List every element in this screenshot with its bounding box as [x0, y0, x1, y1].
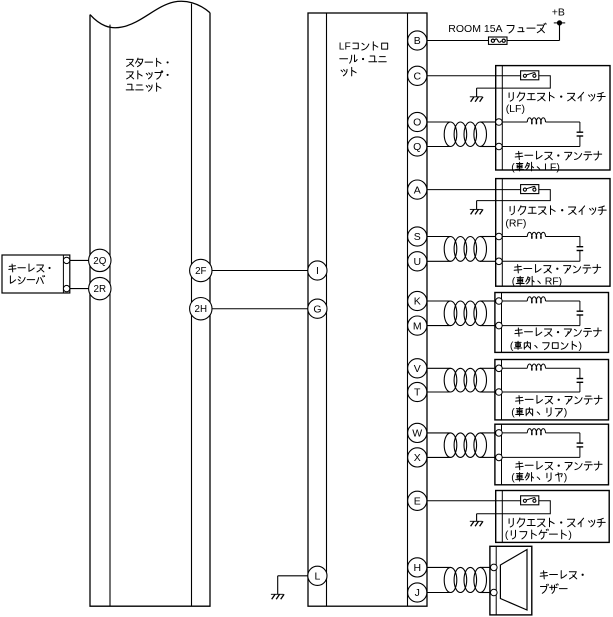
wire receiver to 2Q — [70, 259, 89, 261]
wire A to switch (RF) — [427, 189, 521, 191]
antenna coil LF — [502, 121, 527, 123]
antenna pin top (LF) — [496, 119, 503, 126]
antenna pin bottom (RF) — [496, 258, 503, 265]
svg-text:O: O — [413, 117, 421, 129]
svg-text:): ) — [564, 406, 568, 418]
ground (LF switch) — [476, 88, 478, 97]
twisted pair O-Q — [427, 121, 451, 123]
svg-text:2Q: 2Q — [93, 256, 106, 267]
keyless antenna (exterior LF) label — [511, 151, 601, 173]
svg-text:(: ( — [510, 340, 514, 352]
twisted pair H-J — [427, 566, 451, 568]
keyless buzzer box — [490, 546, 532, 615]
LF control unit — [308, 13, 427, 606]
antenna capacitor int-rear — [502, 368, 583, 392]
request switch (LF) label — [506, 92, 606, 115]
fuse ROOM 15A — [489, 37, 508, 44]
svg-text:H: H — [413, 562, 421, 574]
start-stop unit (box with torn wavy top) — [90, 1, 210, 606]
wire switch (liftgate) to ground — [477, 501, 551, 514]
terminal U — [408, 252, 427, 271]
svg-text:X: X — [414, 452, 421, 464]
terminal 2R — [89, 277, 111, 299]
antenna capacitor int-front — [502, 301, 583, 326]
terminal 2H — [190, 298, 212, 320]
ground (L) — [277, 593, 279, 595]
request switch (RF) — [521, 185, 539, 194]
keyless antenna (interior rear) box — [495, 360, 609, 420]
wire switch (RF) to ground — [477, 190, 551, 201]
terminal E — [408, 491, 427, 510]
request switch (liftgate) box — [496, 491, 610, 543]
wire B to fuse — [427, 40, 489, 42]
terminal H — [408, 558, 427, 577]
svg-text:T: T — [414, 387, 421, 399]
svg-text:): ) — [568, 529, 572, 541]
antenna coil int-rear — [502, 367, 527, 369]
svg-text:C: C — [413, 71, 421, 83]
antenna pin bottom (LF) — [496, 143, 503, 150]
antenna capacitor RF — [502, 237, 583, 262]
request switch (liftgate) — [521, 496, 539, 505]
receiver pin (top) — [63, 257, 69, 263]
ground (RF switch) — [476, 201, 478, 210]
wire receiver to 2R — [70, 288, 89, 290]
start-stop unit label — [126, 58, 168, 91]
antenna pin top (int-front) — [496, 298, 503, 305]
terminal 2F — [190, 259, 212, 281]
svg-text:(RF): (RF) — [505, 217, 526, 229]
wire E to switch (liftgate) — [427, 500, 521, 502]
twisted pair V-T — [427, 367, 451, 369]
terminal G — [308, 299, 327, 318]
svg-text:LF): LF) — [544, 161, 560, 173]
antenna pin top (int-rear) — [496, 365, 503, 372]
svg-text:(: ( — [511, 472, 515, 484]
svg-text:U: U — [413, 256, 421, 268]
+B supply — [552, 6, 565, 25]
svg-text:): ) — [579, 340, 583, 352]
antenna coil ext-rear — [502, 432, 527, 434]
wire L to ground — [278, 575, 308, 577]
terminal S — [408, 227, 427, 246]
request switch / antenna unit (RF) box — [496, 179, 610, 287]
svg-text:+B: +B — [552, 6, 565, 18]
terminal C — [408, 66, 427, 85]
svg-text:B: B — [414, 35, 421, 47]
svg-text:RF): RF) — [545, 275, 563, 287]
svg-text:A: A — [414, 184, 421, 196]
buzzer pin top — [491, 564, 498, 571]
twisted pair S-U — [427, 236, 451, 238]
wire fuse to +B — [507, 40, 560, 42]
antenna pin bottom (int-rear) — [496, 389, 503, 396]
terminal X — [408, 448, 427, 467]
LF control unit label — [339, 42, 388, 76]
ground (liftgate switch) — [476, 514, 478, 522]
antenna pin bottom (ext-rear) — [496, 454, 503, 461]
keyless receiver unit — [2, 255, 70, 293]
antenna pin top (RF) — [496, 233, 503, 240]
svg-text:V: V — [414, 363, 421, 375]
svg-text:M: M — [413, 320, 422, 332]
antenna capacitor ext-rear — [502, 433, 583, 458]
keyless antenna (interior rear) label — [511, 395, 602, 418]
twisted pair W-X — [427, 432, 451, 434]
terminal Q — [408, 137, 427, 156]
request switch (LF) — [521, 71, 539, 80]
wire C to switch (LF) — [427, 75, 521, 77]
svg-text:(: ( — [511, 406, 515, 418]
svg-text:W: W — [412, 428, 422, 440]
svg-text:E: E — [414, 496, 421, 508]
svg-text:I: I — [316, 265, 319, 277]
terminal J — [408, 583, 427, 602]
terminal O — [408, 112, 427, 131]
keyless receiver label — [9, 264, 51, 284]
terminal T — [408, 382, 427, 401]
antenna coil RF — [502, 236, 527, 238]
keyless antenna (exterior rear) label — [511, 461, 602, 483]
keyless antenna (exterior rear) box — [495, 424, 609, 485]
terminal V — [408, 359, 427, 378]
antenna pin bottom (int-front) — [496, 322, 503, 329]
svg-text:2H: 2H — [195, 304, 208, 315]
terminal 2Q — [89, 249, 111, 271]
svg-text:(: ( — [512, 275, 516, 287]
buzzer speaker cone — [500, 550, 527, 611]
svg-text:2R: 2R — [94, 284, 107, 295]
svg-text:K: K — [414, 296, 421, 308]
receiver pin (bottom) — [63, 285, 69, 291]
twisted pair K-M — [427, 300, 451, 302]
antenna coil int-front — [502, 300, 527, 302]
terminal B — [408, 31, 427, 50]
svg-text:LF: LF — [339, 42, 351, 53]
keyless buzzer label — [540, 571, 584, 594]
svg-text:Q: Q — [413, 141, 421, 153]
terminal I — [308, 261, 327, 280]
terminal M — [408, 316, 427, 335]
svg-text:): ) — [564, 472, 568, 484]
svg-text:L: L — [314, 571, 320, 583]
keyless antenna (interior front) label — [510, 328, 601, 352]
svg-text:S: S — [414, 231, 421, 243]
keyless antenna (interior front) box — [495, 293, 609, 353]
terminal L — [308, 566, 327, 585]
svg-text:2F: 2F — [195, 266, 206, 277]
wire 2H to G — [212, 308, 308, 310]
request switch (RF) label — [505, 206, 606, 230]
terminal A — [408, 180, 427, 199]
request switch (liftgate) label — [505, 518, 605, 541]
svg-text:J: J — [415, 587, 420, 599]
svg-text:(: ( — [511, 161, 515, 173]
keyless antenna (exterior RF) label — [512, 265, 601, 288]
wire 2F to I — [212, 270, 308, 272]
svg-text:ROOM 15A: ROOM 15A — [448, 23, 502, 35]
request switch / antenna unit (LF) box — [496, 66, 610, 170]
terminal W — [408, 423, 427, 442]
svg-text:(: ( — [505, 529, 509, 541]
terminal K — [408, 291, 427, 310]
svg-text:(LF): (LF) — [506, 103, 525, 115]
antenna capacitor LF — [502, 122, 583, 147]
wire switch (LF) to ground — [477, 76, 551, 88]
antenna pin top (ext-rear) — [496, 430, 503, 437]
svg-text:G: G — [313, 303, 321, 315]
buzzer pin bottom — [491, 589, 498, 596]
